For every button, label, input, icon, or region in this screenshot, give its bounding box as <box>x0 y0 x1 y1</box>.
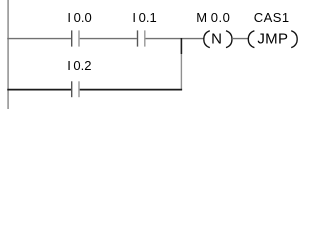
wire rung2 segment: I0.2 to junction <box>80 89 182 91</box>
power rail (left) <box>7 0 9 109</box>
svg-text:JMP: JMP <box>257 30 288 47</box>
svg-text:I 0.0: I 0.0 <box>67 10 91 25</box>
wire branch junction vertical (upper dark part) <box>180 38 182 54</box>
contact I0.2 (NO contact, parallel branch) <box>72 81 79 97</box>
wire rung1 segment: rail to contact I0.0 <box>7 38 71 40</box>
contact I0.0 (NO contact) <box>72 30 79 46</box>
wire rung2 segment: rail to contact I0.2 <box>7 89 71 91</box>
svg-text:M 0.0: M 0.0 <box>196 10 230 25</box>
svg-text:CAS1: CAS1 <box>254 10 290 25</box>
contact I0.1 (NO contact) <box>138 30 145 46</box>
wire branch junction vertical (lower gray part) <box>180 54 182 90</box>
wire rung1 segment: coil N to coil JMP <box>232 38 248 40</box>
svg-text:N: N <box>211 30 222 47</box>
svg-text:I 0.2: I 0.2 <box>67 58 91 73</box>
coil jump (JMP) to label CAS1 <box>248 30 297 47</box>
coil M0.0 negated (N) <box>204 30 232 47</box>
wire rung1 segment: I0.0 to I0.1 <box>80 38 137 40</box>
wire rung1 segment: I0.1 to coil N (passes branch junction) <box>146 38 204 40</box>
svg-text:I 0.1: I 0.1 <box>132 10 156 25</box>
